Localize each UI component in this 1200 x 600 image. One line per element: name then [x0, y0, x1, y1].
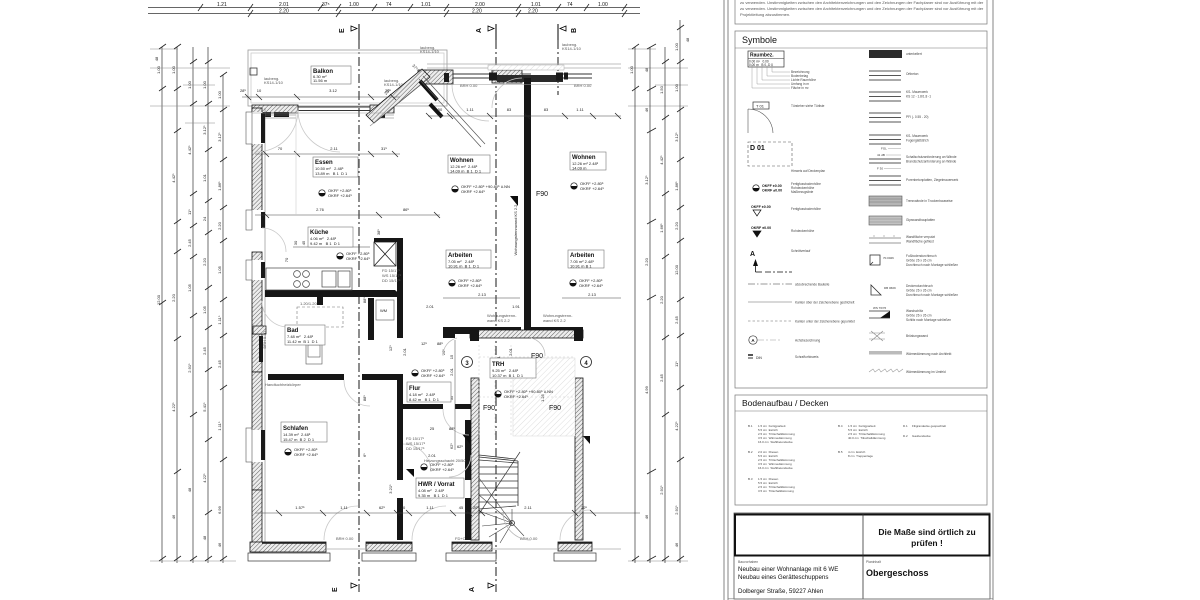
left chain connector horizontals [150, 49, 236, 561]
legend: D01 box [748, 142, 825, 173]
svg-text:3.12⁵: 3.12⁵ [644, 175, 649, 185]
Bad pilaster stub [253, 326, 266, 334]
svg-text:Fläche in m²: Fläche in m² [791, 86, 809, 90]
svg-text:30: 30 [293, 240, 298, 245]
svg-text:F90: F90 [483, 405, 495, 412]
svg-text:0.00 m B 0 D 0: 0.00 m B 0 D 0 [749, 63, 773, 67]
svg-text:3.5 cm Tittschalldämmung: 3.5 cm Tittschalldämmung [758, 489, 794, 493]
svg-text:B.5: B.5 [838, 450, 843, 454]
svg-text:Hinweis auf Deckenplan: Hinweis auf Deckenplan [791, 169, 825, 173]
svg-text:OKFF ±0.00: OKFF ±0.00 [762, 184, 782, 188]
legend: dash-dot line abzubrechende [748, 283, 830, 287]
svg-text:abzubrechende Bauteile: abzubrechende Bauteile [795, 283, 830, 287]
window sill lines below essen front [256, 115, 394, 118]
interior wall vertical x398 (solid) [397, 240, 403, 338]
svg-text:OKRF +2.64⁵: OKRF +2.64⁵ [346, 256, 370, 261]
svg-text:11.42 m B 1 D 1: 11.42 m B 1 D 1 [287, 339, 319, 344]
svg-text:Maßbezugslinie: Maßbezugslinie [791, 190, 814, 194]
leader lines [752, 65, 790, 88]
svg-text:88⁵: 88⁵ [449, 426, 455, 431]
svg-text:2.01: 2.01 [279, 2, 289, 8]
room label Arbeiten [446, 250, 491, 269]
svg-text:F90: F90 [536, 191, 548, 198]
svg-text:D 01: D 01 [750, 145, 765, 152]
svg-text:28⁵: 28⁵ [240, 88, 246, 93]
room label Essen [313, 157, 358, 177]
svg-text:2.11: 2.11 [524, 505, 532, 510]
svg-text:1.11: 1.11 [426, 505, 434, 510]
svg-text:20: 20 [401, 505, 406, 510]
TRH left wall hatched [471, 378, 479, 540]
interior dim row y212 [255, 207, 440, 218]
legend right col: daemmung dashes [869, 369, 946, 374]
sheet frame verticals right column [724, 0, 993, 600]
svg-text:46: 46 [644, 107, 649, 112]
room label HWR/Vorrat [416, 478, 464, 498]
svg-text:OKRF ±0.00: OKRF ±0.00 [751, 226, 771, 230]
bottom exterior wall hatched bands [250, 542, 592, 552]
dark window frames Essen front [256, 112, 385, 118]
okff Flur [412, 368, 446, 378]
svg-text:OKRF +2.64⁵: OKRF +2.64⁵ [430, 467, 454, 472]
svg-text:11.56 m: 11.56 m [313, 78, 328, 83]
svg-text:prüfen !: prüfen ! [911, 538, 943, 548]
axis circle 3 [462, 357, 473, 368]
svg-text:Türsteher siehe Türliste: Türsteher siehe Türliste [791, 104, 825, 108]
room label Kueche [308, 227, 353, 247]
svg-text:1.05: 1.05 [217, 265, 222, 274]
svg-text:8.42 m B 1 D 1: 8.42 m B 1 D 1 [409, 397, 440, 402]
svg-text:2.45: 2.45 [217, 359, 222, 368]
top-left wall (Essen front) hatched [252, 105, 394, 113]
svg-text:KS 12 - 1.8/1.8 -1: KS 12 - 1.8/1.8 -1 [906, 95, 931, 99]
svg-text:1.57⁵: 1.57⁵ [295, 505, 305, 510]
balcony drain square [250, 68, 257, 75]
legend right col: wandschlitz symbol [869, 306, 951, 322]
legend: OKRF triangle filled [751, 226, 814, 237]
svg-text:1.00: 1.00 [674, 83, 679, 92]
svg-text:62⁵: 62⁵ [449, 443, 454, 449]
wall vertical between Schlafen and Flur/HWR [397, 380, 403, 480]
svg-text:4.42⁵: 4.42⁵ [659, 155, 664, 165]
left chain labels (rotated) [156, 65, 222, 547]
svg-text:4.99: 4.99 [644, 385, 649, 394]
svg-text:1.00: 1.00 [156, 65, 161, 74]
left wall window break whites [252, 112, 263, 462]
svg-text:Brandschutzanforderung an Wänd: Brandschutzanforderung an Wände [906, 160, 957, 164]
left exterior wall hatched [252, 108, 262, 552]
svg-text:OKRF +2.64⁵: OKRF +2.64⁵ [458, 283, 482, 288]
svg-text:Schlitz nach Montage schließen: Schlitz nach Montage schließen [906, 318, 951, 322]
svg-text:2.45: 2.45 [674, 315, 679, 324]
svg-text:Symbole: Symbole [742, 35, 777, 45]
svg-text:WM: WM [380, 308, 387, 313]
left chain tick marks [159, 44, 227, 561]
svg-text:1.00: 1.00 [674, 42, 679, 51]
svg-text:Fugenglattstrich: Fugenglattstrich [906, 139, 929, 143]
svg-text:41 dB: 41 dB [877, 153, 885, 157]
svg-text:D.2: D.2 [903, 434, 908, 438]
svg-text:1.86⁵: 1.86⁵ [217, 181, 222, 191]
svg-text:2.13: 2.13 [588, 292, 597, 297]
svg-text:1.20/1.20: 1.20/1.20 [300, 301, 317, 306]
svg-text:1.00: 1.00 [598, 2, 608, 8]
svg-text:Projektleitung abzustimmen.: Projektleitung abzustimmen. [740, 12, 790, 17]
svg-text:10.37 m B 1 D 1: 10.37 m B 1 D 1 [492, 373, 524, 378]
svg-text:2.00: 2.00 [475, 2, 485, 8]
title block vertical divider [862, 514, 864, 599]
svg-text:2.01: 2.01 [426, 304, 435, 309]
svg-text:Größe 26 x 26 cm: Größe 26 x 26 cm [906, 289, 932, 293]
svg-text:B: B [571, 28, 578, 33]
okff Schlafen [285, 447, 319, 457]
svg-text:zu verwenden. Unstimmigkeiten: zu verwenden. Unstimmigkeiten zwischen d… [740, 6, 984, 11]
svg-text:2.91⁵: 2.91⁵ [187, 363, 192, 373]
bottom wall inner dark edges [262, 542, 592, 544]
svg-text:PFI (- 0.55 - 20): PFI (- 0.55 - 20) [906, 115, 929, 119]
svg-text:OKRF +2.64⁵: OKRF +2.64⁵ [580, 186, 604, 191]
room label Wohnen 2 [570, 152, 606, 171]
section marker B top [558, 24, 578, 40]
svg-text:B.1: B.1 [748, 424, 753, 428]
svg-text:Größe 26 x 26 cm: Größe 26 x 26 cm [906, 259, 932, 263]
svg-text:62⁵: 62⁵ [379, 505, 385, 510]
bad dim chain small [293, 229, 381, 246]
svg-text:16.0 cm Stahlbetondecke: 16.0 cm Stahlbetondecke [758, 466, 793, 470]
legend right col: KS Mauerwerk lines [869, 92, 901, 101]
svg-text:Dolberger Straße, 59227 Ahlen: Dolberger Straße, 59227 Ahlen [738, 588, 824, 595]
svg-text:Fertigfussbodenhöhe: Fertigfussbodenhöhe [791, 207, 821, 211]
legend: section arrow A [750, 249, 810, 272]
svg-text:Wohnungstrennwand KS 2.2: Wohnungstrennwand KS 2.2 [513, 204, 518, 256]
svg-text:FGL: FGL [881, 147, 887, 151]
section marker A bottom [469, 583, 494, 592]
svg-text:1.01: 1.01 [531, 2, 541, 8]
note box top [735, 0, 987, 24]
svg-text:31⁵: 31⁵ [381, 146, 387, 151]
okff Wohnen [452, 184, 510, 194]
Flur top wall segment [403, 404, 443, 409]
svg-text:Filigrandecke gespachtelt: Filigrandecke gespachtelt [912, 424, 946, 428]
okff Kueche [337, 251, 371, 261]
svg-text:Wärmedämmung nach Architekt: Wärmedämmung nach Architekt [906, 352, 951, 356]
svg-text:Wandfläche gefliest: Wandfläche gefliest [906, 240, 934, 244]
svg-text:DD 15/17⁵: DD 15/17⁵ [406, 446, 425, 451]
svg-text:15: 15 [449, 354, 454, 359]
kitchen shaft with X [374, 242, 396, 266]
svg-text:15.47 m B 2 D 1: 15.47 m B 2 D 1 [283, 437, 315, 442]
TRH stair hatched landing area [513, 358, 575, 436]
svg-text:BRH 0.00: BRH 0.00 [460, 83, 478, 88]
svg-text:1.01: 1.01 [421, 2, 431, 8]
small vertical dim near TRH x452 [449, 340, 455, 450]
svg-text:48: 48 [644, 67, 649, 72]
svg-text:KS- Mauerwerk: KS- Mauerwerk [906, 134, 928, 138]
svg-text:2.01: 2.01 [449, 367, 454, 376]
wall above shaft horizontal [374, 238, 403, 242]
svg-text:KS- Mauerwerk: KS- Mauerwerk [906, 90, 928, 94]
legend: DIN stack [748, 354, 819, 360]
svg-text:38⁵: 38⁵ [376, 229, 381, 235]
interior wall kitchen bottom (solid) [265, 290, 395, 297]
svg-text:1.11: 1.11 [340, 505, 348, 510]
svg-text:OKFF ±0.00: OKFF ±0.00 [751, 205, 771, 209]
Bodenaufbau column 1 [748, 424, 795, 493]
stair walk-line node [510, 521, 515, 526]
svg-text:1.11: 1.11 [576, 107, 584, 112]
svg-text:1.86⁵: 1.86⁵ [674, 181, 679, 191]
svg-text:Achsbezeichnung: Achsbezeichnung [795, 339, 820, 343]
Bodenaufbau column 3 [903, 424, 946, 438]
okff Wohnen2 [571, 181, 605, 191]
svg-text:F90: F90 [531, 353, 543, 360]
legend right col: Porenbeton [869, 176, 901, 185]
legend right col: solid dark swatch [869, 50, 922, 58]
svg-text:1.25: 1.25 [540, 393, 545, 402]
svg-text:A: A [750, 251, 755, 258]
svg-text:OKRF +2.64⁵: OKRF +2.64⁵ [504, 394, 528, 399]
svg-text:Wandfläche verputzt: Wandfläche verputzt [906, 235, 935, 239]
svg-text:Gaubendecke: Gaubendecke [912, 434, 931, 438]
svg-text:12⁵: 12⁵ [388, 345, 393, 351]
stair dashed guide grid [479, 345, 575, 437]
room label Bad [285, 325, 325, 345]
stair treads [479, 460, 518, 509]
dark window frames top [444, 73, 568, 83]
svg-text:KS14-1/10: KS14-1/10 [562, 46, 582, 51]
stair flight edge diagonal [479, 455, 518, 506]
svg-text:B.3: B.3 [748, 477, 753, 481]
svg-text:Schraffurhinweis: Schraffurhinweis [795, 355, 819, 359]
window opening lines top (BRH 0.00 doors) [453, 74, 531, 78]
svg-text:Bauvorhaben: Bauvorhaben [738, 560, 758, 564]
svg-text:KS14-1/10: KS14-1/10 [264, 80, 284, 85]
svg-text:Brüstungswand: Brüstungswand [906, 334, 928, 338]
svg-text:2.91⁵: 2.91⁵ [659, 485, 664, 495]
misc vertical dims inside plan [362, 297, 545, 494]
svg-text:14.09 m B 1 D 1: 14.09 m B 1 D 1 [450, 169, 482, 174]
bottom interior dim row y511 [255, 505, 640, 516]
svg-text:16.0 cm Stahlbetondecke: 16.0 cm Stahlbetondecke [758, 440, 793, 444]
legend right col: Trockenbau gray band [869, 196, 902, 206]
svg-text:2.45: 2.45 [202, 346, 207, 355]
svg-text:unterkellert: unterkellert [906, 52, 922, 56]
svg-text:2.20: 2.20 [659, 295, 664, 304]
svg-text:1.00: 1.00 [187, 80, 192, 89]
svg-text:2.91⁵: 2.91⁵ [674, 505, 679, 515]
svg-text:46: 46 [217, 542, 222, 547]
section line B vertical dash-dot short [557, 40, 559, 95]
left wall window outer sills [246, 112, 252, 462]
svg-text:14.09 m: 14.09 m [572, 166, 587, 171]
svg-text:KS14-1/10: KS14-1/10 [384, 82, 404, 87]
TRH top wall hatched [470, 330, 583, 338]
svg-text:11⁵: 11⁵ [187, 209, 192, 215]
svg-text:DD 15/17⁵: DD 15/17⁵ [382, 278, 401, 283]
svg-text:DIN: DIN [756, 356, 762, 360]
svg-text:F 30: F 30 [877, 167, 883, 171]
top dimension labels [217, 2, 608, 15]
top wall right section hatched (Wohnen front) [418, 70, 522, 84]
svg-text:A: A [469, 587, 476, 592]
interior dim row y151 [255, 146, 400, 157]
top wall black band near F90 [497, 75, 563, 82]
Bodenaufbau column 2 [838, 424, 886, 458]
Bodenaufbau panel frame [735, 395, 987, 505]
svg-text:2.20: 2.20 [674, 221, 679, 230]
svg-text:4.22⁵: 4.22⁵ [202, 473, 207, 483]
room label Flur [407, 382, 451, 402]
svg-text:D.1: D.1 [903, 424, 908, 428]
svg-text:2.45: 2.45 [659, 373, 664, 382]
legend right col: bruestungswand X symbol [869, 331, 928, 341]
section line E vertical dash-dot [358, 40, 360, 592]
svg-text:2.20: 2.20 [528, 9, 538, 15]
okff Arbeiten2 [570, 278, 604, 288]
svg-text:2.11: 2.11 [330, 146, 338, 151]
Symbole panel frame [735, 31, 987, 388]
svg-text:1.00: 1.00 [217, 90, 222, 99]
svg-text:4.22⁵: 4.22⁵ [171, 402, 176, 412]
svg-text:8 cm Treppenlage: 8 cm Treppenlage [848, 454, 873, 458]
legend: solid thin line kanten ueber [748, 301, 854, 305]
svg-text:BRH 0.00: BRH 0.00 [574, 83, 592, 88]
arbeiten entry door arc [443, 338, 457, 356]
svg-text:E: E [332, 587, 339, 592]
bottom outer sill strips [248, 553, 596, 561]
room label Arbeiten 2 [568, 250, 604, 269]
svg-text:1.50: 1.50 [659, 85, 664, 94]
svg-text:83: 83 [507, 107, 512, 112]
svg-text:wand KS 2.2: wand KS 2.2 [487, 318, 510, 323]
right dimension chains [635, 20, 680, 563]
svg-text:1.00: 1.00 [349, 2, 359, 8]
svg-text:2.01: 2.01 [508, 347, 513, 356]
svg-text:48: 48 [187, 487, 192, 492]
svg-text:OKRF +2.64⁵: OKRF +2.64⁵ [579, 283, 603, 288]
svg-text:12⁵: 12⁵ [421, 341, 427, 346]
interior wall vertical WM (solid) [368, 298, 374, 340]
svg-text:2.20: 2.20 [644, 257, 649, 266]
WM box [376, 300, 394, 320]
svg-text:Kanten unter der Zeichenebene: Kanten unter der Zeichenebene gepunktet [795, 320, 855, 324]
svg-text:2.20: 2.20 [217, 221, 222, 230]
legend: Raumbez box [748, 51, 816, 90]
FD/WS/DD shaft labels [382, 268, 426, 451]
svg-text:Raumbez.: Raumbez. [750, 53, 774, 59]
section marker A top [476, 24, 496, 40]
svg-text:Wärmedämmung im Umfeld: Wärmedämmung im Umfeld [906, 370, 946, 374]
svg-text:1.11⁵: 1.11⁵ [217, 315, 222, 324]
svg-text:OKRF +2.64⁵: OKRF +2.64⁵ [421, 373, 445, 378]
svg-text:2.01: 2.01 [402, 347, 407, 356]
okff HWR [421, 462, 455, 472]
svg-text:BRH 0.00: BRH 0.00 [336, 536, 354, 541]
svg-text:Neubau einer Wohnanlage mit 6: Neubau einer Wohnanlage mit 6 WE [738, 566, 838, 573]
legend: axis circle A [749, 336, 821, 344]
svg-text:11⁵: 11⁵ [674, 361, 679, 367]
svg-text:Größe 26 x 26 cm: Größe 26 x 26 cm [906, 314, 932, 318]
legend right col: KS Fugenglattstrich [869, 135, 901, 144]
svg-text:74: 74 [386, 2, 392, 8]
Arbeiten top walls (solid with notches) [443, 327, 583, 338]
svg-text:86⁵: 86⁵ [403, 207, 409, 212]
legend right col: square durchbruch symbol [870, 254, 958, 267]
svg-text:Neubau eines Gerätteschuppens: Neubau eines Gerätteschuppens [738, 574, 828, 581]
left wall inner finish lines [264, 108, 266, 552]
svg-text:1.11⁵: 1.11⁵ [217, 421, 222, 430]
svg-text:70: 70 [284, 257, 289, 262]
svg-text:1.05: 1.05 [202, 305, 207, 314]
svg-text:1.01: 1.01 [202, 173, 207, 182]
title block outer [734, 513, 990, 599]
canopy railing diagonal thin lines [419, 76, 485, 147]
svg-text:1.66⁵: 1.66⁵ [659, 223, 664, 233]
svg-text:6⁵: 6⁵ [362, 453, 367, 457]
svg-text:83: 83 [544, 107, 549, 112]
wall vertical between HWR and TRH zone [465, 420, 471, 480]
svg-text:20⁵: 20⁵ [473, 505, 479, 510]
room label Balkon [311, 66, 351, 84]
svg-text:1.00: 1.00 [202, 80, 207, 89]
svg-text:2.76: 2.76 [316, 207, 325, 212]
door sill black triangles [406, 196, 590, 477]
svg-text:E: E [339, 28, 346, 33]
laubengang slab top lines [427, 64, 621, 68]
legend: OKFF circle symbol [753, 182, 821, 194]
svg-text:Heizungsschacht 20/50: Heizungsschacht 20/50 [424, 458, 466, 463]
svg-text:Handtuchheizkörper: Handtuchheizkörper [265, 382, 301, 387]
slab hatch strip above band [488, 65, 564, 70]
svg-text:6.99: 6.99 [217, 505, 222, 514]
svg-text:50: 50 [438, 107, 443, 112]
svg-text:2.13: 2.13 [478, 292, 487, 297]
legend right col: Beton lines [869, 71, 901, 80]
svg-text:WS 76/76: WS 76/76 [873, 306, 887, 310]
svg-text:24: 24 [202, 216, 207, 221]
svg-text:37⁵: 37⁵ [322, 2, 330, 8]
svg-text:40.0 cm Tittschalldämmung: 40.0 cm Tittschalldämmung [848, 436, 886, 440]
svg-text:74: 74 [567, 2, 573, 8]
svg-text:B.4: B.4 [838, 424, 843, 428]
okff TRH [495, 389, 553, 399]
svg-text:OKRF +2.64⁵: OKRF +2.64⁵ [328, 193, 352, 198]
legend: OKFF triangle open [751, 205, 821, 216]
svg-text:Wandschlitz: Wandschlitz [906, 309, 923, 313]
svg-text:Durchbruch nach Montage schlie: Durchbruch nach Montage schließen [906, 293, 958, 297]
stair winder fan [479, 478, 524, 543]
axis circle 4 [581, 357, 592, 368]
dim row under top wall y115 [426, 107, 621, 119]
section line A vertical dash-dot [495, 40, 497, 592]
legend: door symbol T01 [748, 102, 825, 133]
legend right col: Schallschutz 41dB [869, 153, 957, 171]
top mini dim row y95 [240, 88, 400, 100]
svg-text:Obergeschoss: Obergeschoss [866, 568, 929, 578]
svg-text:Deckendurchbruch: Deckendurchbruch [906, 284, 933, 288]
svg-text:1.00: 1.00 [171, 65, 176, 74]
svg-text:Gipswandbauplatten: Gipswandbauplatten [906, 218, 935, 222]
svg-text:KS14-1/10: KS14-1/10 [420, 49, 440, 54]
svg-text:4.42⁵: 4.42⁵ [171, 173, 176, 183]
svg-text:9.35 m B 1 D 1: 9.35 m B 1 D 1 [418, 493, 449, 498]
room label TRH [490, 358, 536, 378]
svg-text:25: 25 [430, 426, 435, 431]
section marker E bottom [332, 583, 357, 592]
svg-text:20⁵: 20⁵ [581, 505, 587, 510]
svg-text:46: 46 [644, 514, 649, 519]
svg-text:48: 48 [685, 37, 690, 42]
